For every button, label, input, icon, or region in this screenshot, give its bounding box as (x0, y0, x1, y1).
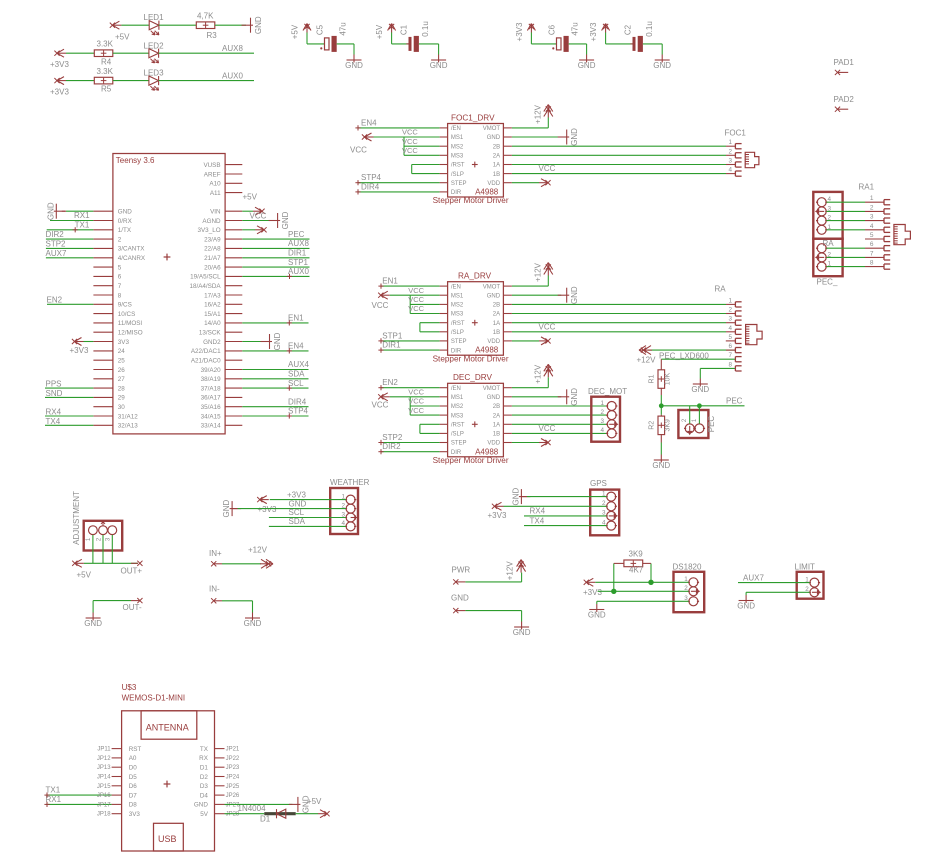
svg-text:22/A8: 22/A8 (204, 246, 221, 253)
svg-text:STP2: STP2 (382, 433, 403, 442)
svg-text:3V3_LO: 3V3_LO (197, 227, 220, 234)
svg-text:4,7K: 4,7K (197, 12, 214, 21)
svg-text:LED1: LED1 (144, 13, 165, 22)
svg-text:14/A0: 14/A0 (204, 320, 221, 327)
svg-text:5V: 5V (200, 811, 209, 818)
svg-text:+3V3: +3V3 (287, 490, 306, 499)
svg-text:3: 3 (870, 214, 874, 221)
svg-text:STP2: STP2 (46, 239, 67, 248)
svg-text:VIN: VIN (210, 209, 221, 216)
svg-text:TX1: TX1 (46, 786, 61, 795)
svg-text:2: 2 (684, 585, 688, 592)
svg-text:0.1u: 0.1u (421, 21, 430, 37)
svg-text:2A: 2A (493, 154, 500, 160)
svg-text:4: 4 (602, 519, 606, 526)
svg-text:20/A6: 20/A6 (204, 264, 221, 271)
svg-text:Teensy 3.6: Teensy 3.6 (116, 156, 155, 165)
svg-text:GND: GND (652, 461, 670, 470)
svg-text:26: 26 (118, 367, 126, 374)
svg-text:PEC_: PEC_ (817, 278, 838, 287)
svg-text:2B: 2B (493, 144, 500, 150)
svg-text:MS3: MS3 (451, 413, 464, 419)
svg-text:GND: GND (430, 61, 448, 70)
svg-text:PEC: PEC (726, 396, 743, 405)
svg-text:29: 29 (118, 395, 126, 402)
svg-text:VCC: VCC (372, 301, 389, 310)
svg-text:1: 1 (728, 139, 732, 146)
svg-text:6: 6 (118, 274, 122, 281)
svg-text:FOC1: FOC1 (725, 129, 747, 138)
svg-text:GPS: GPS (590, 479, 607, 488)
svg-text:STP4: STP4 (288, 407, 309, 416)
svg-text:JP21: JP21 (226, 747, 240, 753)
svg-text:JP11: JP11 (97, 747, 111, 753)
svg-text:VCC: VCC (408, 286, 424, 295)
svg-text:0.1u: 0.1u (645, 21, 654, 37)
svg-text:PEC: PEC (707, 416, 716, 433)
svg-text:VCC: VCC (402, 146, 418, 155)
svg-text:GND: GND (46, 202, 55, 220)
svg-text:GND: GND (222, 499, 231, 517)
svg-text:5: 5 (728, 334, 732, 341)
svg-text:+5V: +5V (307, 797, 322, 806)
svg-text:RA: RA (823, 239, 835, 248)
svg-text:JP23: JP23 (226, 765, 240, 771)
svg-text:STEP: STEP (451, 339, 467, 345)
svg-text:7: 7 (118, 283, 122, 290)
svg-text:34/A15: 34/A15 (201, 413, 221, 420)
svg-text:JP18: JP18 (97, 812, 111, 818)
svg-text:VMOT: VMOT (483, 386, 501, 392)
svg-text:VCC: VCC (408, 397, 424, 406)
svg-text:VCC: VCC (408, 388, 424, 397)
svg-text:+3V3: +3V3 (258, 505, 277, 514)
svg-text:1: 1 (728, 297, 732, 304)
svg-text:AUX8: AUX8 (222, 44, 243, 53)
svg-text:+3V3: +3V3 (583, 588, 602, 597)
svg-text:/RST: /RST (451, 321, 465, 327)
svg-text:MS1: MS1 (451, 135, 464, 141)
svg-text:1A: 1A (493, 423, 500, 429)
svg-text:DIR: DIR (451, 348, 462, 354)
svg-text:3: 3 (602, 510, 606, 517)
svg-text:A22/DAC1: A22/DAC1 (191, 348, 221, 355)
svg-text:1: 1 (684, 576, 688, 583)
svg-text:VCC: VCC (402, 137, 418, 146)
svg-text:AUX7: AUX7 (46, 249, 67, 258)
svg-text:+12V: +12V (534, 364, 543, 384)
svg-text:STP1: STP1 (288, 258, 309, 267)
svg-text:/RST: /RST (451, 423, 465, 429)
svg-text:IN-: IN- (209, 585, 220, 594)
svg-text:33/A14: 33/A14 (201, 423, 221, 430)
svg-text:MS3: MS3 (451, 312, 464, 318)
svg-text:STP1: STP1 (382, 331, 403, 340)
svg-text:32/A13: 32/A13 (118, 423, 138, 430)
svg-text:D7: D7 (129, 792, 138, 799)
svg-text:D3: D3 (200, 783, 209, 790)
svg-text:8: 8 (118, 292, 122, 299)
svg-text:VCC: VCC (402, 128, 418, 137)
svg-text:47u: 47u (339, 22, 348, 35)
svg-text:JP15: JP15 (97, 784, 111, 790)
svg-text:39/A20: 39/A20 (201, 367, 221, 374)
svg-text:6: 6 (728, 343, 732, 350)
svg-text:GND: GND (570, 388, 579, 406)
svg-text:4: 4 (728, 167, 732, 174)
svg-text:MS2: MS2 (451, 144, 464, 150)
svg-text:AUX0: AUX0 (288, 267, 309, 276)
svg-text:VMOT: VMOT (483, 126, 501, 132)
svg-text:GND: GND (84, 619, 102, 628)
svg-text:AUX8: AUX8 (288, 239, 309, 248)
svg-text:1B: 1B (493, 172, 500, 178)
svg-text:17/A3: 17/A3 (204, 292, 221, 299)
svg-text:GND: GND (570, 286, 579, 304)
svg-text:AREF: AREF (204, 171, 221, 178)
svg-text:2A: 2A (493, 312, 500, 318)
svg-text:/SLP: /SLP (451, 172, 464, 178)
svg-text:24: 24 (118, 348, 126, 355)
svg-text:10/CS: 10/CS (118, 311, 136, 318)
svg-text:21/A7: 21/A7 (204, 255, 221, 262)
svg-text:GND: GND (451, 593, 469, 602)
svg-text:DIR2: DIR2 (382, 442, 401, 451)
svg-text:JP25: JP25 (226, 784, 240, 790)
svg-text:MS2: MS2 (451, 303, 464, 309)
svg-text:1N4004: 1N4004 (238, 804, 267, 813)
svg-text:D1: D1 (200, 765, 209, 772)
svg-text:VDD: VDD (487, 339, 500, 345)
svg-text:VCC: VCC (408, 304, 424, 313)
svg-text:SCL: SCL (289, 508, 305, 517)
svg-text:RX1: RX1 (74, 211, 90, 220)
svg-text:+3V3: +3V3 (70, 346, 89, 355)
svg-text:4: 4 (341, 520, 345, 527)
svg-text:SCL: SCL (288, 379, 304, 388)
svg-text:VCC: VCC (408, 295, 424, 304)
svg-text:3.3K: 3.3K (97, 39, 114, 48)
svg-text:30: 30 (118, 404, 126, 411)
svg-text:2: 2 (341, 502, 345, 509)
svg-text:GND: GND (244, 619, 262, 628)
svg-text:2: 2 (728, 307, 732, 314)
svg-text:4: 4 (600, 427, 604, 434)
svg-text:WEMOS-D1-MINI: WEMOS-D1-MINI (122, 693, 186, 702)
svg-text:PEC: PEC (288, 230, 305, 239)
svg-text:/EN: /EN (451, 386, 461, 392)
svg-text:+12V: +12V (506, 561, 515, 581)
svg-text:1B: 1B (493, 330, 500, 336)
svg-text:MS1: MS1 (451, 293, 464, 299)
svg-text:D8: D8 (129, 802, 138, 809)
svg-text:SDA: SDA (289, 517, 306, 526)
svg-text:3V3: 3V3 (129, 811, 141, 818)
svg-text:1: 1 (602, 490, 606, 497)
svg-text:38/A19: 38/A19 (201, 376, 221, 383)
svg-text:A0: A0 (129, 755, 137, 762)
svg-text:FOC1_DRV: FOC1_DRV (451, 113, 495, 122)
svg-text:27: 27 (118, 376, 126, 383)
svg-text:3: 3 (341, 511, 345, 518)
svg-text:AUX4: AUX4 (288, 360, 309, 369)
svg-text:TX4: TX4 (530, 516, 545, 525)
svg-text:+12V: +12V (248, 545, 268, 554)
svg-text:STP4: STP4 (361, 173, 382, 182)
svg-text:10K: 10K (665, 372, 672, 385)
svg-text:/SLP: /SLP (451, 432, 464, 438)
svg-text:U$3: U$3 (122, 683, 137, 692)
svg-text:OUT+: OUT+ (121, 567, 143, 576)
svg-text:GND: GND (588, 611, 606, 620)
svg-text:VCC: VCC (408, 406, 424, 415)
svg-text:2A: 2A (493, 413, 500, 419)
svg-text:8: 8 (728, 361, 732, 368)
svg-text:/EN: /EN (451, 284, 461, 290)
svg-text:GND: GND (194, 802, 208, 809)
svg-text:TX4: TX4 (46, 417, 61, 426)
svg-text:D4: D4 (200, 792, 209, 799)
svg-text:GND: GND (487, 395, 501, 401)
svg-text:A11: A11 (210, 190, 221, 197)
svg-text:GND: GND (513, 628, 531, 637)
svg-text:3: 3 (728, 158, 732, 165)
svg-text:RX4: RX4 (530, 507, 546, 516)
svg-text:GND: GND (653, 61, 671, 70)
svg-text:RX: RX (199, 755, 209, 762)
svg-text:VCC: VCC (350, 145, 367, 154)
svg-text:JP16: JP16 (97, 793, 111, 799)
svg-text:23/A9: 23/A9 (204, 236, 221, 243)
svg-text:1B: 1B (493, 432, 500, 438)
svg-text:+3V3: +3V3 (50, 60, 69, 69)
svg-text:DS1820: DS1820 (673, 563, 702, 572)
svg-text:VCC: VCC (539, 164, 556, 173)
svg-text:DEC_MOT: DEC_MOT (588, 387, 627, 396)
svg-text:/SLP: /SLP (451, 330, 464, 336)
svg-text:JP17: JP17 (97, 802, 111, 808)
svg-text:VDD: VDD (487, 441, 500, 447)
svg-text:DIR1: DIR1 (288, 248, 307, 257)
svg-text:C5: C5 (316, 24, 325, 35)
svg-text:A10: A10 (209, 181, 221, 188)
svg-text:EN2: EN2 (47, 295, 63, 304)
svg-text:ADJUSTMENT: ADJUSTMENT (72, 491, 81, 545)
svg-text:Stepper Motor Driver: Stepper Motor Driver (433, 196, 509, 205)
svg-text:RA1: RA1 (859, 183, 875, 192)
svg-text:USB: USB (158, 834, 177, 844)
svg-text:R4: R4 (101, 57, 112, 66)
svg-text:JP14: JP14 (97, 775, 111, 781)
svg-text:5: 5 (118, 264, 122, 271)
svg-text:A21/DAC0: A21/DAC0 (191, 358, 221, 365)
svg-text:GND: GND (511, 487, 520, 505)
svg-text:VMOT: VMOT (483, 284, 501, 290)
svg-text:C2: C2 (624, 24, 633, 35)
svg-text:SDA: SDA (288, 370, 305, 379)
svg-text:3V3: 3V3 (118, 339, 130, 346)
svg-text:STEP: STEP (451, 441, 467, 447)
svg-text:AUX0: AUX0 (222, 72, 243, 81)
svg-text:19/A5/SCL: 19/A5/SCL (190, 274, 221, 281)
svg-text:2B: 2B (493, 303, 500, 309)
svg-text:2: 2 (602, 500, 606, 507)
svg-text:GND: GND (281, 211, 290, 229)
svg-text:15/A1: 15/A1 (204, 311, 221, 318)
svg-text:AGND: AGND (202, 218, 221, 225)
svg-text:D5: D5 (129, 774, 138, 781)
svg-text:GND: GND (254, 16, 263, 34)
svg-text:3: 3 (600, 418, 604, 425)
svg-text:2: 2 (805, 586, 809, 593)
svg-text:GND: GND (691, 385, 709, 394)
svg-text:LED3: LED3 (144, 69, 165, 78)
svg-text:+5V: +5V (243, 193, 258, 202)
svg-text:JP12: JP12 (97, 756, 111, 762)
svg-text:R5: R5 (101, 85, 112, 94)
svg-text:VCC: VCC (539, 322, 556, 331)
svg-text:D6: D6 (129, 783, 138, 790)
svg-text:+12V: +12V (534, 104, 543, 124)
svg-text:2B: 2B (493, 404, 500, 410)
svg-text:Stepper Motor Driver: Stepper Motor Driver (433, 354, 509, 363)
svg-text:GND2: GND2 (203, 339, 221, 346)
svg-text:13/SCK: 13/SCK (199, 330, 222, 337)
svg-text:18/A4/SDA: 18/A4/SDA (189, 283, 221, 290)
svg-text:+5V: +5V (115, 33, 130, 42)
svg-text:GND: GND (578, 61, 596, 70)
svg-text:+3V3: +3V3 (50, 88, 69, 97)
svg-text:GND: GND (118, 209, 132, 216)
svg-text:EN4: EN4 (361, 118, 377, 127)
svg-text:MS1: MS1 (451, 395, 464, 401)
svg-text:LIMIT: LIMIT (795, 563, 816, 572)
svg-text:DIR: DIR (451, 190, 462, 196)
svg-text:TX1: TX1 (75, 221, 90, 230)
svg-text:1/TX: 1/TX (118, 227, 132, 234)
svg-text:1: 1 (600, 400, 604, 407)
svg-text:RST: RST (129, 746, 142, 753)
svg-text:+3V3: +3V3 (589, 22, 598, 41)
svg-text:1: 1 (870, 195, 874, 202)
svg-text:+3V3: +3V3 (515, 22, 524, 41)
svg-text:3: 3 (728, 316, 732, 323)
svg-text:R2: R2 (649, 421, 656, 430)
svg-text:3.3K: 3.3K (97, 67, 114, 76)
svg-text:EN1: EN1 (288, 314, 304, 323)
svg-text:4: 4 (870, 223, 874, 230)
svg-text:D0: D0 (129, 765, 138, 772)
svg-text:/EN: /EN (451, 126, 461, 132)
svg-text:VDD: VDD (487, 181, 500, 187)
svg-text:GND: GND (570, 128, 579, 146)
svg-text:1A: 1A (493, 163, 500, 169)
svg-text:+12V: +12V (534, 262, 543, 282)
svg-text:8: 8 (870, 260, 874, 267)
svg-text:EN1: EN1 (382, 277, 398, 286)
svg-text:D1: D1 (260, 815, 271, 824)
svg-text:16/A2: 16/A2 (204, 302, 221, 309)
svg-text:LED2: LED2 (144, 41, 165, 50)
svg-text:RX1: RX1 (46, 795, 62, 804)
svg-text:DIR2: DIR2 (46, 230, 65, 239)
svg-text:7: 7 (870, 250, 874, 257)
svg-text:DIR1: DIR1 (382, 341, 401, 350)
svg-text:+12V: +12V (637, 355, 657, 364)
svg-text:STEP: STEP (451, 181, 467, 187)
svg-text:DEC_DRV: DEC_DRV (453, 373, 493, 382)
svg-text:5: 5 (870, 232, 874, 239)
svg-text:VCC: VCC (372, 401, 389, 410)
svg-text:Stepper Motor Driver: Stepper Motor Driver (433, 456, 509, 465)
svg-text:GND: GND (737, 602, 755, 611)
svg-text:6: 6 (870, 241, 874, 248)
svg-text:RA: RA (715, 285, 727, 294)
svg-text:GND: GND (487, 293, 501, 299)
svg-text:VCC: VCC (539, 424, 556, 433)
svg-text:2: 2 (600, 409, 604, 416)
svg-text:11/MOSI: 11/MOSI (118, 320, 143, 327)
svg-text:2: 2 (118, 236, 122, 243)
svg-text:1A: 1A (493, 321, 500, 327)
svg-text:3/CANTX: 3/CANTX (118, 246, 145, 253)
svg-text:+5V: +5V (77, 571, 92, 580)
svg-text:4: 4 (728, 325, 732, 332)
svg-text:37/A18: 37/A18 (201, 385, 221, 392)
svg-text:3K9: 3K9 (665, 419, 672, 432)
svg-text:9/CS: 9/CS (118, 302, 132, 309)
svg-text:SND: SND (46, 389, 63, 398)
svg-text:+5V: +5V (375, 24, 384, 39)
svg-text:RX4: RX4 (46, 408, 62, 417)
svg-text:PWR: PWR (452, 566, 471, 575)
svg-text:MS3: MS3 (451, 154, 464, 160)
svg-text:C1: C1 (400, 24, 409, 35)
svg-text:GND: GND (289, 499, 307, 508)
svg-text:VCC: VCC (250, 211, 267, 220)
svg-text:GND: GND (273, 332, 282, 350)
svg-text:JP24: JP24 (226, 775, 240, 781)
svg-text:ANTENNA: ANTENNA (146, 723, 189, 733)
svg-text:PEC_LXD600: PEC_LXD600 (659, 351, 709, 360)
svg-text:EN4: EN4 (288, 342, 304, 351)
svg-text:31/A12: 31/A12 (118, 413, 138, 420)
svg-text:0/RX: 0/RX (118, 218, 133, 225)
svg-text:JP26: JP26 (226, 793, 240, 799)
svg-text:+5V: +5V (291, 24, 300, 39)
svg-text:/RST: /RST (451, 163, 465, 169)
svg-text:D2: D2 (200, 774, 209, 781)
svg-text:2: 2 (870, 204, 874, 211)
svg-text:47u: 47u (571, 22, 580, 35)
svg-text:GND: GND (345, 61, 363, 70)
svg-text:OUT-: OUT- (123, 603, 142, 612)
svg-text:JP13: JP13 (97, 765, 111, 771)
svg-text:28: 28 (118, 385, 126, 392)
svg-text:AUX7: AUX7 (743, 573, 764, 582)
svg-text:JP22: JP22 (226, 756, 240, 762)
svg-text:TX: TX (200, 746, 209, 753)
svg-text:4/CANRX: 4/CANRX (118, 255, 146, 262)
svg-text:PPS: PPS (46, 380, 62, 389)
svg-text:1: 1 (341, 493, 345, 500)
svg-text:VUSB: VUSB (203, 162, 220, 169)
svg-text:PAD2: PAD2 (834, 95, 855, 104)
svg-text:EN2: EN2 (382, 378, 398, 387)
svg-text:MS2: MS2 (451, 404, 464, 410)
svg-text:PAD1: PAD1 (834, 58, 855, 67)
svg-text:12/MISO: 12/MISO (118, 330, 143, 337)
